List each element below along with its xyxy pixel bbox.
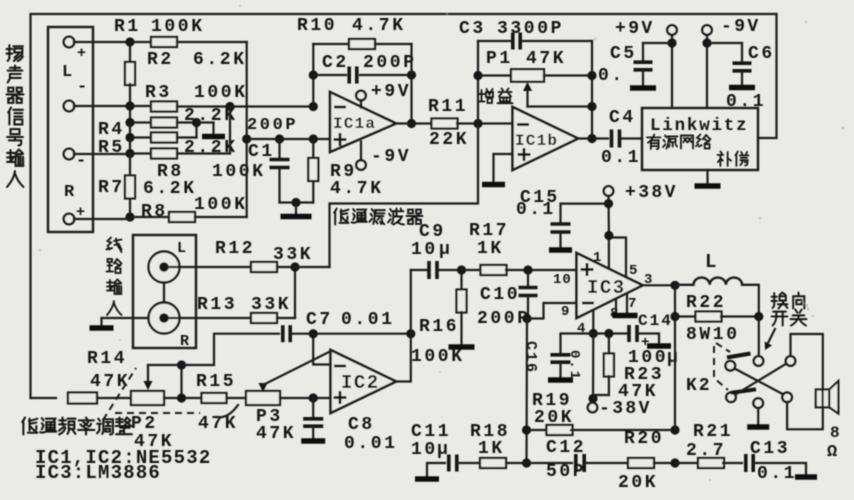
gain label (CJK) (479, 89, 494, 103)
pins 7 8 ground stubs (615, 300, 617, 314)
svg-text:0.1: 0.1 (566, 350, 582, 381)
wire IC2 minus to output node (313, 334, 330, 365)
capacitor C4 0.1 (610, 130, 614, 148)
speaker signal input label (vertical CJK) (7, 45, 23, 61)
ground of C11 (415, 476, 439, 482)
wire IC1b plus to ground (494, 154, 513, 182)
svg-text:R: R (180, 333, 189, 350)
svg-text:20K: 20K (534, 408, 574, 428)
capacitor C14 100u (627, 325, 631, 342)
node IC2 output (406, 329, 415, 338)
ground of Linkwitz box (706, 170, 708, 183)
svg-text:9: 9 (561, 304, 569, 320)
potentiometer P3 47K (246, 391, 280, 405)
svg-text:1: 1 (593, 250, 601, 266)
wire IC2 output up to C9 row (410, 270, 412, 334)
svg-text:C2: C2 (322, 53, 349, 73)
wire +input row (247, 138, 330, 140)
svg-text:C6: C6 (748, 44, 775, 64)
svg-text:R4: R4 (98, 120, 125, 140)
wire IC3 minus to C10 bottom (527, 303, 577, 319)
line input label (vertical CJK) (107, 238, 122, 253)
svg-text:R16: R16 (419, 317, 459, 337)
svg-text:2.7: 2.7 (686, 441, 726, 461)
svg-text:IC3: IC3 (587, 277, 626, 299)
resistor R8 100K (130, 216, 170, 218)
svg-text:C8: C8 (348, 415, 375, 435)
svg-text:R11: R11 (428, 97, 468, 117)
svg-text:IC3:LM3886: IC3:LM3886 (35, 462, 161, 484)
svg-text:C3: C3 (459, 19, 486, 39)
wire +9V rail (671, 35, 673, 108)
node R22 right (754, 312, 763, 321)
wire L+ to R1 node (74, 41, 130, 43)
capacitor C11 10u (427, 463, 445, 476)
svg-text:33K: 33K (273, 245, 313, 265)
wire IC1a output (396, 122, 432, 124)
svg-text:4.7K: 4.7K (352, 16, 406, 36)
node C1 top (275, 134, 284, 143)
wire R23 to -38V (593, 395, 609, 399)
svg-text:C1: C1 (248, 142, 275, 162)
svg-text:R3: R3 (145, 83, 172, 103)
svg-text:5: 5 (629, 263, 637, 279)
node line mix (290, 262, 299, 271)
svg-text:-: - (77, 78, 87, 97)
svg-text:C16: C16 (522, 341, 539, 374)
svg-text:C4: C4 (609, 108, 636, 128)
svg-text:4.7K: 4.7K (330, 179, 384, 199)
svg-text:L: L (705, 251, 716, 273)
wire line-input feed to IC1b minus (330, 124, 479, 268)
terminal L+ (64, 37, 75, 48)
svg-text:+: + (77, 45, 86, 62)
node C1/R9 ground join (291, 198, 300, 207)
terminal R+ (64, 214, 75, 225)
svg-text:R7: R7 (98, 178, 125, 198)
svg-text:P2: P2 (131, 414, 158, 434)
svg-text:Ω: Ω (827, 443, 837, 462)
svg-text:R20: R20 (624, 429, 664, 449)
ground of R16 (449, 344, 475, 350)
ground of C6 (729, 85, 755, 91)
wire feedback riser IC1b (477, 41, 479, 124)
svg-text:R2: R2 (147, 50, 174, 70)
svg-text:R22: R22 (686, 293, 726, 313)
capacitor C3 3300P (478, 40, 510, 42)
svg-text:L: L (177, 240, 186, 257)
low pass filter label (CJK) (334, 209, 348, 225)
wire L- to R3 node (74, 105, 130, 107)
switch K2 left-bottom contact (726, 393, 736, 403)
svg-text:μ: μ (437, 440, 448, 460)
terminal L- (64, 101, 75, 112)
wire summing bus (R1/R8 to +input) (246, 42, 248, 217)
wire L right down (758, 285, 760, 317)
ground of C15 (549, 247, 572, 253)
resistor R22 8W10 (675, 315, 696, 317)
svg-text:6.2K: 6.2K (143, 179, 197, 199)
svg-text:1K: 1K (477, 239, 504, 259)
wire border to R14 (31, 397, 57, 399)
ground of C16 (548, 377, 573, 383)
svg-text:47K: 47K (526, 49, 566, 69)
resistor R10 4.7K feedback (313, 43, 349, 45)
svg-text:μ: μ (439, 240, 450, 260)
wire +38V to IC3 (607, 196, 610, 236)
pin 4 stub (592, 311, 594, 334)
resistor R19 20K (527, 429, 549, 431)
resistor R6 100K (labelled R8) (129, 138, 131, 154)
Linkwitz CJK labels (647, 134, 661, 149)
resistor R1 100K (130, 41, 152, 43)
svg-text:C13: C13 (750, 439, 790, 459)
speaker LS1 (816, 390, 830, 408)
node IC1b minus input (473, 119, 482, 128)
capacitor C15 0.1 bypass (561, 204, 609, 222)
wire 2.2K node to ground tap (197, 121, 214, 123)
svg-text:20K: 20K (618, 473, 658, 493)
svg-text:R13: R13 (197, 295, 237, 315)
ground of C5 (630, 85, 656, 91)
wire -9V rail (706, 35, 708, 108)
wire IC2 apex to output riser (396, 334, 411, 382)
ground bar of 2.2K divider (202, 134, 225, 140)
svg-text:100K: 100K (194, 83, 248, 103)
wire IC1b output (578, 137, 608, 139)
op-amp IC3 LM3886 (577, 253, 643, 318)
svg-text:8W10: 8W10 (686, 325, 740, 345)
wire P2 right to node (164, 397, 202, 399)
svg-text:L: L (62, 63, 72, 82)
switch K2 blade top (727, 354, 751, 358)
resistor R16 100K (vertical) (460, 270, 462, 290)
capacitor C6 0.1 bypass (707, 42, 742, 44)
node IC1a output (407, 119, 416, 128)
terminal R- (64, 149, 75, 160)
wire K2 cross 1 (735, 369, 784, 395)
svg-text:10: 10 (553, 272, 572, 288)
svg-text:+38V: +38V (625, 183, 678, 203)
op-amp IC1a (330, 92, 396, 152)
svg-text:-9V: -9V (721, 17, 761, 37)
svg-text:R12: R12 (215, 239, 255, 259)
svg-text:100K: 100K (411, 347, 465, 367)
ganged pots dashed link (103, 368, 136, 420)
svg-text:+9V: +9V (615, 19, 655, 39)
capacitor C16 0.1 (vertical text) (551, 353, 571, 357)
wire right-bottom contact to speaker (787, 402, 823, 429)
svg-text:3300P: 3300P (497, 19, 564, 39)
inductor L (675, 278, 759, 285)
svg-text:50P: 50P (546, 462, 586, 482)
switch K2 right-bottom contact (782, 393, 792, 403)
wire feedback riser left (312, 44, 314, 107)
svg-text:C7: C7 (306, 310, 333, 330)
svg-text:R10: R10 (297, 16, 337, 36)
switch K2 blade bottom (731, 389, 756, 393)
node A sallen-key (177, 393, 186, 402)
node B sallen-key (309, 393, 318, 402)
capacitor C5 0.1 bypass (643, 42, 672, 44)
resistor R3 100K (130, 105, 152, 107)
svg-text:6.2K: 6.2K (193, 50, 247, 70)
ground bar of pins 7 8 (613, 313, 638, 319)
node R19 left (522, 425, 531, 434)
terminal box (48, 27, 93, 232)
svg-text:R15: R15 (196, 372, 236, 392)
resistor R11 22K (432, 119, 458, 129)
node R9 top (309, 134, 318, 143)
wire R13 up to R12 node (294, 267, 296, 318)
capacitor C10 200P (527, 270, 529, 285)
switch K2 linkage dashed (714, 343, 730, 390)
wire to switch pole (758, 317, 760, 357)
node bottom row right join (670, 458, 679, 467)
ground of IC1b plus input (482, 182, 505, 188)
svg-text:0.01: 0.01 (341, 310, 395, 330)
node IC1b output (587, 134, 596, 143)
node C10 bottom (522, 314, 531, 323)
svg-text:10: 10 (411, 440, 438, 460)
svg-text:47K: 47K (256, 424, 296, 444)
resistor R9 4.7K (vertical) (312, 139, 314, 157)
resistor R14 47K (68, 393, 97, 404)
ground of RCA shield (102, 317, 149, 319)
wire RCA jacks link (163, 283, 165, 303)
+9V terminal of IC1a (356, 91, 366, 101)
-9V supply terminal (702, 25, 712, 35)
node bottom row left join (522, 458, 531, 467)
svg-text:C9: C9 (419, 222, 446, 242)
svg-text:K2: K2 (686, 376, 712, 396)
ground of K2 pole (757, 408, 759, 424)
op-amp IC1b (513, 107, 579, 170)
switch K2 pole bottom contact (753, 398, 763, 408)
svg-text:C12: C12 (546, 438, 586, 458)
switch K2 pole top contact (754, 356, 764, 366)
node R23 top (604, 329, 613, 338)
svg-text:100K: 100K (194, 195, 248, 215)
-9V terminal of IC1a (356, 160, 366, 170)
svg-text:10: 10 (411, 240, 438, 260)
wire pin4 riser to -38V (592, 334, 594, 399)
svg-text:Linkwitz: Linkwitz (650, 116, 748, 136)
RCA jack L (149, 252, 180, 283)
svg-text:0.1: 0.1 (516, 200, 556, 220)
resistor R4 2.2K (129, 106, 131, 123)
node P2 wiper tie (177, 360, 186, 369)
capacitor C12 50P (527, 462, 573, 464)
node R19 right on output riser (670, 425, 679, 434)
wire C16 branch (561, 334, 594, 353)
svg-text:1K: 1K (478, 439, 505, 459)
node R16 top (457, 265, 466, 274)
svg-text:IC1b: IC1b (515, 132, 558, 150)
resistor R5 2.2K (129, 123, 131, 138)
resistor R15 47K (202, 393, 227, 403)
P3 wiper arrow (259, 383, 268, 392)
wire C10 node down (525, 319, 528, 464)
svg-text:R8: R8 (141, 202, 168, 222)
resistor R17 1K (462, 269, 482, 271)
resistor R2 6.2K (vertical) (129, 42, 131, 63)
svg-text:IC1a: IC1a (333, 115, 376, 133)
wire right border down to Linkwitz box (758, 14, 777, 138)
-38V supply terminal (588, 403, 598, 413)
wire K2 cross 2 (735, 364, 787, 395)
switch K2 right-top contact (786, 356, 796, 366)
ground of C13 (795, 474, 817, 480)
svg-text:+9V: +9V (371, 82, 411, 102)
capacitor C1 200P (278, 139, 280, 157)
ground of C14 (647, 343, 671, 349)
capacitor C9 10u (411, 269, 429, 271)
wire output riser (674, 285, 676, 430)
ground of C8 (301, 438, 325, 444)
svg-text:R1: R1 (114, 17, 141, 37)
svg-text:8: 8 (830, 424, 840, 442)
resistor R20 20K (628, 458, 654, 468)
svg-text:P1: P1 (486, 49, 513, 69)
pin 5 stub (609, 238, 626, 278)
wire R- to node (74, 153, 130, 155)
svg-text:200P: 200P (363, 53, 417, 73)
svg-text:0.: 0. (598, 66, 625, 86)
wire R3 row to opamp minus (crosses bus, no join) (230, 105, 313, 107)
node L- (125, 101, 134, 110)
P1 wiper arrow (526, 88, 528, 107)
capacitor C7 0.01 feedback (182, 334, 280, 365)
resistor R12 33K (168, 266, 252, 268)
resistor R13 33K (168, 317, 252, 319)
node C10 top (523, 265, 532, 274)
svg-text:100K: 100K (212, 162, 266, 182)
svg-text:0.1: 0.1 (757, 464, 797, 484)
svg-text:C5: C5 (610, 44, 637, 64)
svg-text:R14: R14 (87, 349, 127, 369)
svg-text:C14: C14 (638, 312, 673, 330)
node bus to +input row (242, 134, 251, 143)
potentiometer P2 47K (131, 391, 164, 405)
capacitor C8 0.01 (312, 398, 314, 416)
wire right-top contact to speaker (791, 334, 823, 390)
resistor R7 6.2K (vertical) (129, 154, 131, 175)
wire P3 to +input node (280, 397, 331, 399)
svg-text:33K: 33K (251, 295, 291, 315)
+38V supply terminal (604, 186, 614, 196)
wire feedback right riser IC1b (591, 41, 593, 139)
wire R+ to R8 (74, 218, 130, 220)
resistor R18 1K (480, 458, 506, 468)
svg-text:IC2: IC2 (341, 372, 380, 394)
svg-text:200P: 200P (247, 116, 298, 135)
wire mix node right (295, 266, 330, 268)
svg-text:C11: C11 (411, 422, 451, 442)
svg-text:R21: R21 (693, 422, 733, 442)
svg-text:22K: 22K (429, 130, 469, 150)
node pin4 row left (589, 329, 598, 338)
svg-text:0.01: 0.01 (344, 434, 398, 454)
Linkwitz active network box U-LW (642, 108, 758, 170)
node R22 left (670, 312, 679, 321)
svg-text:0.1: 0.1 (601, 148, 641, 168)
svg-text:C10: C10 (480, 285, 520, 305)
wire P3 wiper diagonal (263, 352, 329, 385)
wire IC2 output row (313, 333, 411, 335)
node R+ row (125, 212, 134, 221)
node R3 row junction x230 (225, 102, 234, 111)
RCA jack R (149, 303, 180, 334)
P2 wiper arrow (147, 365, 149, 384)
wire top-left border feedback path (31, 14, 777, 398)
node input bus top (125, 37, 134, 46)
node IC3 output (643, 284, 675, 286)
capacitor C13 0.1 (744, 454, 748, 472)
potentiometer P1 47K (478, 74, 511, 76)
wire feedback riser right (410, 44, 412, 124)
svg-text:R17: R17 (469, 221, 509, 241)
svg-text:R: R (64, 183, 75, 202)
resistor R23 47K (vertical) (608, 334, 610, 355)
svg-text:100K: 100K (151, 17, 205, 37)
svg-text:μ: μ (667, 348, 678, 368)
switch K2 left contact (726, 361, 736, 371)
svg-text:47K: 47K (90, 372, 130, 392)
pin 1 stub (608, 236, 610, 269)
reversing switch label (CJK) (772, 293, 788, 309)
low pass frequency adjust label (CJK) (22, 418, 37, 435)
arrow to switch (768, 329, 776, 344)
svg-text:-9V: -9V (371, 147, 411, 167)
capacitor C2 200P feedback (309, 70, 318, 79)
svg-text:-38V: -38V (599, 399, 652, 419)
wire minus input feedback node (309, 102, 318, 111)
+9V supply terminal (667, 25, 677, 35)
op-amp IC2 (331, 350, 397, 413)
node 2.2K join (192, 118, 201, 127)
ground of C1 R9 (295, 203, 297, 214)
wire pin4 row (593, 332, 629, 334)
svg-text:7: 7 (628, 296, 636, 312)
resistor R21 2.7 (675, 462, 699, 464)
RCA input box (133, 235, 196, 348)
